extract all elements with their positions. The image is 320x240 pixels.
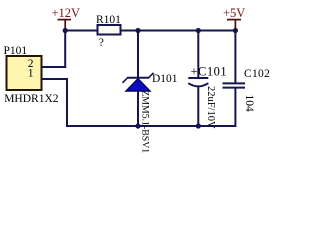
value 22uF/10V xyxy=(205,86,216,129)
power +12V xyxy=(52,6,81,30)
value 104 xyxy=(243,95,255,113)
svg-text:+5V: +5V xyxy=(223,6,245,20)
node junction at +5V rail xyxy=(233,28,238,33)
wire pin1 to bottom rail xyxy=(42,79,68,127)
svg-text:+C101: +C101 xyxy=(191,65,228,79)
node junction at +12V rail xyxy=(63,28,68,33)
svg-text:?: ? xyxy=(99,37,104,49)
svg-text:ZMM5.1-BSV1: ZMM5.1-BSV1 xyxy=(139,90,150,153)
node junction C101 bottom xyxy=(196,123,201,128)
svg-text:22uF/10V: 22uF/10V xyxy=(205,86,216,129)
svg-text:+12V: +12V xyxy=(52,6,81,20)
node junction C101 top xyxy=(196,28,201,33)
value ZMM5.1-BSV1 xyxy=(139,90,150,153)
wire C101 to bottom rail xyxy=(197,86,199,126)
zener diode D101 xyxy=(123,73,178,91)
capacitor C102 xyxy=(223,68,271,88)
wire rail to C101 xyxy=(197,31,199,79)
wire rail to C102 xyxy=(234,31,236,84)
wire pin2 to +12V node xyxy=(42,31,66,68)
svg-text:C102: C102 xyxy=(244,68,270,80)
wire D101 anode to bottom rail xyxy=(137,91,139,126)
connector P101 xyxy=(4,45,42,90)
svg-text:104: 104 xyxy=(243,95,255,113)
svg-text:P101: P101 xyxy=(4,45,28,57)
value ? of R101 xyxy=(99,37,104,49)
wire top rail xyxy=(65,30,235,32)
pin 2 label xyxy=(28,58,34,70)
svg-text:R101: R101 xyxy=(96,14,121,26)
node junction diode top xyxy=(135,28,140,33)
svg-text:MHDR1X2: MHDR1X2 xyxy=(4,93,59,105)
pin 1 label xyxy=(28,68,34,80)
power +5V xyxy=(223,6,245,30)
node junction diode bottom xyxy=(135,123,140,128)
value MHDR1X2 xyxy=(4,93,59,105)
capacitor C101 xyxy=(188,65,227,87)
svg-text:1: 1 xyxy=(28,68,34,80)
wire C102 to bottom rail xyxy=(234,88,236,127)
wire rail to D101 cathode xyxy=(137,31,139,79)
svg-text:D101: D101 xyxy=(152,73,178,85)
wire bottom rail xyxy=(66,125,235,127)
resistor R101 xyxy=(96,14,121,35)
